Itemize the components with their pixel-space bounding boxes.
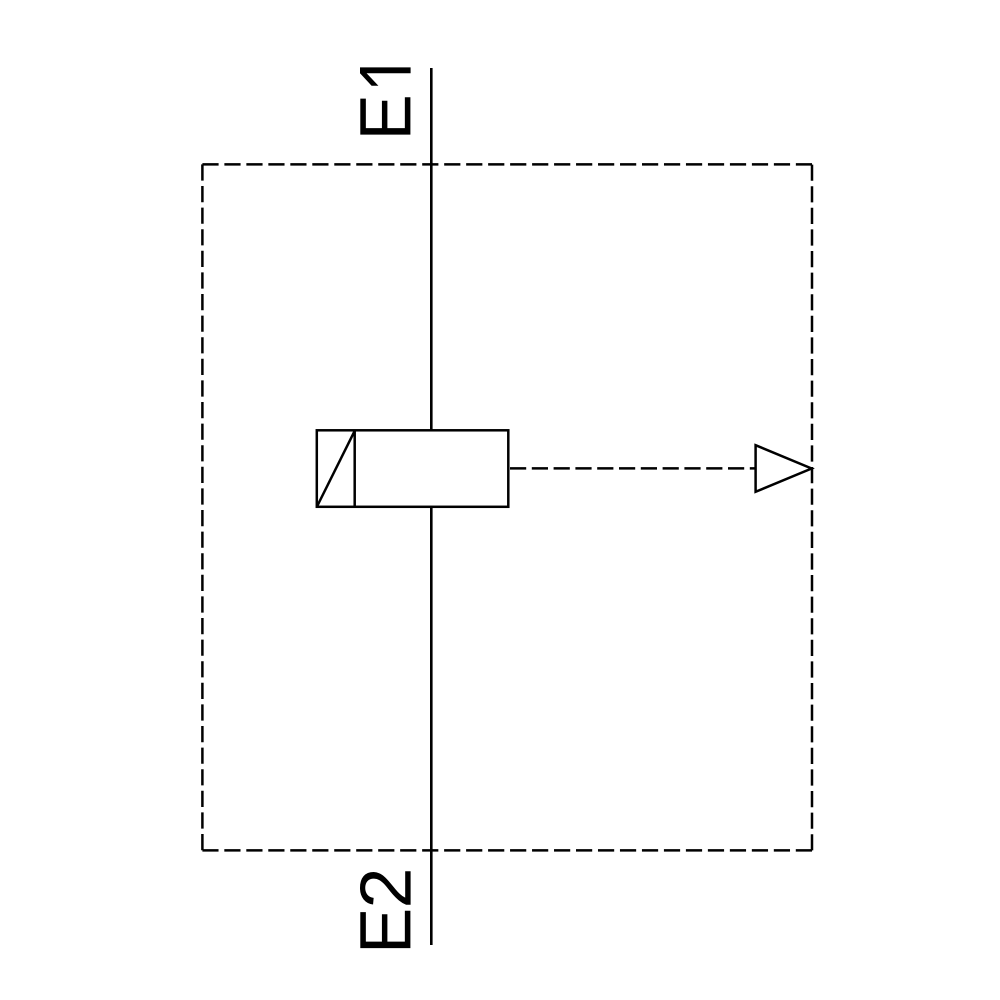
terminal label E2: letter E (rotated 90° CCW) — [360, 911, 410, 948]
relay coil body — [317, 430, 509, 507]
dashed enclosure boundary: top edge — [202, 163, 812, 166]
wire: terminal E2 vertical segment — [430, 507, 433, 945]
dashed enclosure boundary: left edge — [201, 164, 204, 850]
terminal label E2: digit 2 (rotated 90° CCW) — [360, 871, 411, 905]
coil diagonal mark — [317, 431, 355, 507]
dashed enclosure boundary: bottom edge — [202, 849, 812, 852]
terminal label E1: digit 1 (rotated 90° CCW) — [360, 67, 411, 85]
wire: terminal E1 vertical segment — [430, 68, 433, 430]
actuator arrowhead (open triangle) — [756, 445, 812, 492]
terminal label E1: letter E (rotated 90° CCW) — [360, 97, 410, 134]
dashed actuation link — [510, 467, 756, 470]
coil divider — [353, 430, 356, 507]
dashed enclosure boundary: right edge — [811, 164, 814, 850]
